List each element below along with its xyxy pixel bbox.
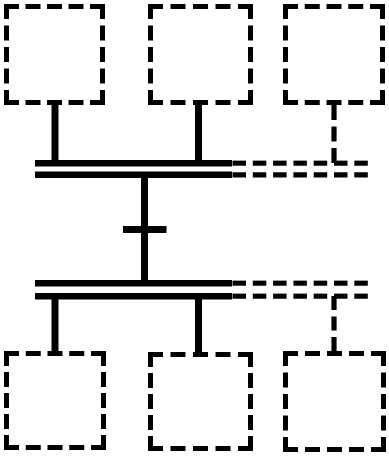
bus 1 upper bar (solid)	[35, 160, 232, 167]
node box T3 (top-right dashed box)	[283, 4, 385, 105]
dashed drop T3 to bus 1	[331, 105, 336, 163]
node box B1 (bottom-left dashed box)	[4, 351, 106, 450]
node box B2 (bottom-middle dashed box)	[148, 352, 253, 451]
bus 2 lower bar (solid)	[35, 293, 232, 300]
bus 2 upper bar (solid)	[35, 280, 232, 287]
wire drop T2 to bus 1	[195, 100, 202, 164]
node box T1 (top-left dashed box)	[4, 4, 105, 105]
crossbar tick on link	[123, 226, 167, 233]
bus 1 lower dashed continuation	[233, 172, 369, 177]
bus 2 upper dashed continuation	[233, 281, 369, 286]
wire drop bus 2 to B2	[195, 295, 202, 354]
wire drop bus 2 to B1	[52, 295, 59, 353]
bus 1 upper dashed continuation	[233, 161, 369, 166]
node box B3 (bottom-right dashed box)	[283, 351, 386, 452]
wire link bus 1 to bus 2	[141, 174, 148, 286]
node box T2 (top-middle dashed box)	[148, 4, 253, 105]
dashed drop bus 2 to B3	[331, 296, 336, 351]
bus 2 lower dashed continuation	[233, 294, 369, 299]
wire drop T1 to bus 1	[52, 100, 59, 164]
bus 1 lower bar (solid)	[35, 172, 232, 179]
